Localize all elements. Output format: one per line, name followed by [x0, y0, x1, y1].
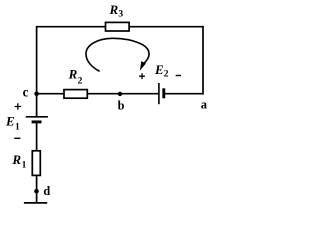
- terminal bar at bottom: [24, 202, 47, 204]
- wire: from E2 to node a corner: [164, 93, 203, 95]
- loop direction arrow (clockwise): [86, 38, 149, 71]
- label + of E1: [15, 103, 22, 110]
- node c: [34, 91, 39, 96]
- wire: right side from top corner down to node a: [202, 26, 204, 95]
- svg-text:3: 3: [118, 9, 123, 19]
- svg-text:d: d: [43, 184, 50, 198]
- svg-text:2: 2: [78, 77, 83, 87]
- label - of E1: [14, 137, 20, 139]
- label + of E2: [139, 73, 145, 79]
- resistor R1: [32, 151, 40, 176]
- battery E2 short plate (-): [162, 88, 165, 98]
- svg-text:R: R: [109, 2, 119, 17]
- svg-text:1: 1: [22, 160, 27, 170]
- wire: top side from left corner to right corner: [37, 26, 203, 28]
- svg-text:2: 2: [164, 70, 169, 80]
- wire: middle from node c through R2 and node b to E2: [37, 93, 159, 95]
- resistor R2: [64, 90, 87, 99]
- label - of E2: [176, 75, 181, 77]
- wire: E1 down to R1: [36, 122, 38, 151]
- svg-text:b: b: [118, 99, 125, 113]
- node b: [118, 92, 122, 96]
- svg-text:c: c: [23, 84, 29, 99]
- loop arrow head: [140, 61, 146, 71]
- battery E1 long plate (+): [26, 116, 48, 118]
- svg-text:E: E: [5, 113, 15, 128]
- resistor R3: [106, 22, 130, 31]
- svg-text:R: R: [68, 67, 78, 82]
- svg-text:1: 1: [15, 123, 20, 133]
- battery E2 long plate (+): [158, 83, 160, 104]
- node d: [34, 189, 39, 194]
- wire: left side from top corner down to node c: [36, 26, 38, 94]
- svg-text:a: a: [201, 98, 208, 112]
- wire: node c down to E1: [36, 94, 38, 117]
- svg-text:R: R: [11, 152, 21, 167]
- svg-text:E: E: [154, 62, 164, 77]
- wire: R1 down through node d to terminal: [36, 175, 38, 203]
- battery E1 short plate (-): [32, 120, 42, 123]
